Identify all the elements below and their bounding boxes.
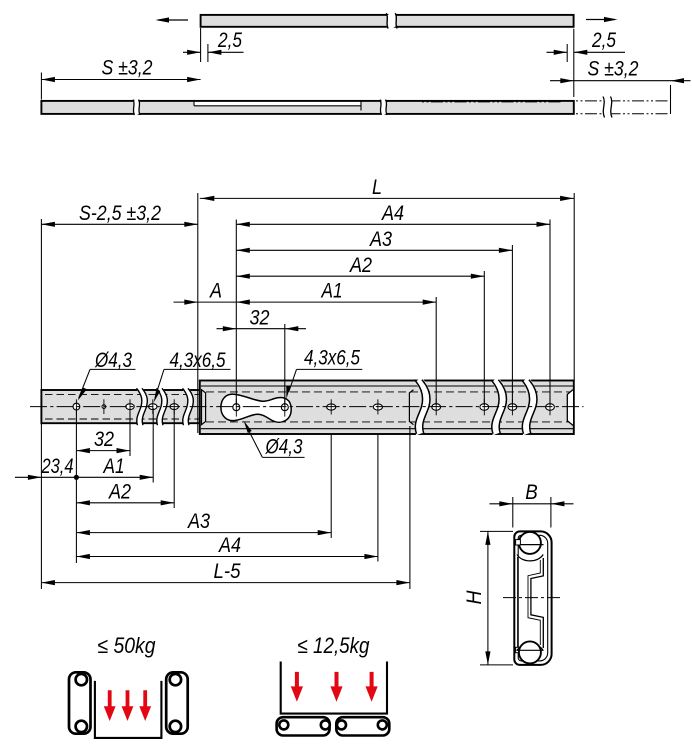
dim H bbox=[480, 530, 513, 532]
dim A4 bottom bbox=[76, 556, 378, 558]
outer rail inner top edge bbox=[201, 385, 573, 387]
extension line hole A4 bbox=[549, 220, 551, 406]
top ball bbox=[519, 532, 541, 554]
hole 1 (round) bbox=[73, 403, 80, 410]
extension line rail left end (top) bbox=[40, 219, 42, 390]
extension line rail left end (bottom) bbox=[40, 424, 42, 589]
load box (open bottom icon 2) bbox=[281, 662, 387, 714]
svg-text:A4: A4 bbox=[217, 534, 241, 557]
svg-text:Ø4,3: Ø4,3 bbox=[265, 435, 303, 458]
center line (dash-dot) bbox=[30, 406, 584, 408]
dim A3 top bbox=[236, 249, 512, 251]
svg-text:≤ 50kg: ≤ 50kg bbox=[98, 633, 157, 658]
slot hole 4 (obround) bbox=[149, 404, 157, 410]
inner rail left segment bbox=[41, 390, 204, 423]
extension line first hole bbox=[235, 220, 237, 406]
svg-text:S ±3,2: S ±3,2 bbox=[588, 58, 639, 81]
break in lower bar right bbox=[380, 100, 387, 115]
bottom ball bbox=[519, 641, 541, 663]
dim 23,4 / A1 bottom bbox=[15, 476, 153, 478]
break symbol in upper bar bbox=[386, 13, 397, 28]
svg-text:A2: A2 bbox=[348, 254, 372, 277]
keyhole right hole bbox=[281, 404, 288, 411]
break pair 3 in inner rail bbox=[183, 388, 194, 425]
extension line hole1 (bottom) bbox=[75, 408, 77, 563]
left slide profile (vertical) bbox=[69, 672, 91, 733]
dim S-2,5 ±3,2 bbox=[41, 223, 197, 225]
extend arrow left bbox=[158, 19, 188, 21]
bottom slide profile 2 (horizontal) bbox=[336, 717, 389, 735]
dim A4 top bbox=[236, 223, 550, 225]
inner rail left wall bbox=[517, 557, 519, 647]
red arrow 6 bbox=[366, 672, 378, 702]
svg-text:S-2,5 ±3,2: S-2,5 ±3,2 bbox=[79, 202, 161, 225]
rail right end notch bbox=[567, 390, 573, 426]
extension line hole A2 bbox=[483, 271, 485, 405]
extension line second hole (32) bbox=[284, 324, 286, 405]
red arrow 2 bbox=[122, 690, 134, 721]
break in phantom lines bbox=[603, 97, 612, 118]
dim S ±3,2 right bbox=[670, 85, 672, 114]
inner rail end stop bracket (right) bbox=[409, 390, 413, 425]
extension line obround A3 (bottom) bbox=[330, 435, 332, 538]
section centre line bbox=[503, 597, 562, 599]
upper rail bar bbox=[201, 15, 574, 27]
break in lower bar left bbox=[133, 100, 140, 115]
dim S ±3,2 left bbox=[40, 73, 42, 100]
extension line obround A4 (bottom) bbox=[377, 435, 379, 562]
dim L-5 bottom bbox=[41, 582, 410, 584]
hole at A1 bbox=[432, 404, 441, 411]
svg-text:32: 32 bbox=[250, 306, 270, 329]
red arrow 5 bbox=[330, 672, 342, 702]
break pair 2 in outer rail bbox=[491, 380, 506, 434]
keyhole left hole bbox=[233, 404, 240, 411]
keyhole slot (bone shaped cutout) bbox=[221, 394, 291, 422]
dim A2 bottom bbox=[76, 502, 174, 504]
svg-text:L: L bbox=[372, 176, 382, 199]
svg-text:4,3x6,5: 4,3x6,5 bbox=[170, 349, 226, 372]
dim 32 top bbox=[217, 328, 307, 330]
break pair 1 in outer rail bbox=[415, 380, 430, 434]
dim L bbox=[200, 197, 574, 199]
slot hole (obround) at A3 bbox=[327, 404, 336, 410]
dim A2 top bbox=[236, 275, 484, 277]
red arrow 4 bbox=[291, 672, 303, 702]
hidden inner rail phantom line bbox=[422, 101, 563, 103]
outer profile bbox=[514, 531, 551, 665]
svg-text:S ±3,2: S ±3,2 bbox=[102, 57, 153, 80]
svg-text:B: B bbox=[525, 481, 538, 504]
extension line slot hole 3 (bottom) bbox=[129, 408, 131, 456]
dim A / A1 top bbox=[174, 301, 437, 303]
top ball retainer line bbox=[516, 544, 543, 546]
svg-text:23,4: 23,4 bbox=[41, 455, 74, 478]
extension line hole A1 bbox=[435, 297, 437, 405]
break pair 1 in inner rail bbox=[137, 388, 148, 425]
slot hole 3 (obround) bbox=[126, 404, 134, 410]
svg-text:4,3x6,5: 4,3x6,5 bbox=[304, 347, 360, 370]
outer rail hidden edges (dashed) bbox=[206, 391, 570, 393]
lower rail bar (closed slide) bbox=[41, 101, 573, 114]
bottom ball retainer line bbox=[516, 649, 543, 651]
slot hole (obround) at A4 bbox=[373, 404, 382, 410]
break pair 2 in inner rail bbox=[157, 388, 168, 425]
svg-text:A4: A4 bbox=[380, 202, 404, 225]
dim 32 bottom bbox=[76, 450, 130, 452]
svg-text:A3: A3 bbox=[186, 510, 210, 533]
inner rail channel (stepped) bbox=[531, 558, 543, 648]
load box (open top) bbox=[95, 681, 161, 738]
svg-text:Ø4,3: Ø4,3 bbox=[94, 349, 132, 372]
outer member white band bbox=[194, 102, 361, 106]
inner rail hidden edge dashes bbox=[45, 393, 200, 395]
svg-text:32: 32 bbox=[94, 428, 114, 451]
extension line slot hole 4 (bottom) bbox=[152, 408, 154, 483]
dim 2,5 left bbox=[200, 28, 202, 62]
red arrow 1 bbox=[104, 690, 116, 721]
right slide profile (vertical) bbox=[166, 672, 188, 733]
extend arrow right bbox=[586, 19, 615, 21]
extension line outer rail left edge bbox=[197, 193, 199, 433]
svg-text:A1: A1 bbox=[320, 280, 343, 303]
inner profile wall bbox=[518, 535, 548, 661]
svg-text:L-5: L-5 bbox=[214, 560, 241, 583]
svg-text:A3: A3 bbox=[368, 228, 392, 251]
outer rail body bbox=[200, 381, 574, 435]
ball retainer notch bottom bbox=[516, 647, 521, 652]
svg-text:2,5: 2,5 bbox=[217, 29, 242, 52]
saddle under top ball bbox=[517, 555, 543, 561]
red arrow 3 bbox=[139, 690, 151, 721]
dim 2,5 right bbox=[566, 44, 568, 62]
svg-text:H: H bbox=[463, 590, 486, 605]
dim B bbox=[512, 497, 514, 528]
outer rail inner bottom edge bbox=[201, 428, 573, 430]
saddle over bottom ball bbox=[517, 644, 543, 650]
hole at A2 bbox=[480, 404, 489, 411]
break pair 3 in outer rail bbox=[522, 380, 537, 434]
extension line hole A3 bbox=[511, 245, 513, 405]
hole 2 (small) bbox=[102, 405, 106, 409]
svg-text:2,5: 2,5 bbox=[591, 29, 616, 52]
dim A3 bottom bbox=[76, 532, 331, 534]
svg-text:A1: A1 bbox=[102, 455, 125, 478]
svg-text:≤ 12,5kg: ≤ 12,5kg bbox=[298, 633, 371, 658]
extension line rail right end bbox=[573, 193, 575, 380]
bottom slide profile 1 (horizontal) bbox=[277, 717, 330, 735]
svg-text:A2: A2 bbox=[107, 480, 131, 503]
inner rail channel inner line bbox=[528, 560, 540, 645]
hole at A4/L bbox=[546, 404, 555, 411]
hole at A3 bbox=[508, 404, 517, 411]
extended position phantom lines bbox=[576, 100, 668, 102]
extension line slot hole 5 (bottom) bbox=[173, 408, 175, 508]
ball retainer notch top bbox=[516, 540, 521, 545]
svg-text:A: A bbox=[208, 280, 222, 303]
inner rail end stop bracket (left) bbox=[202, 390, 206, 425]
slot hole 5 (obround) bbox=[170, 404, 178, 410]
extension line inner rail right end (bottom) bbox=[409, 426, 411, 589]
